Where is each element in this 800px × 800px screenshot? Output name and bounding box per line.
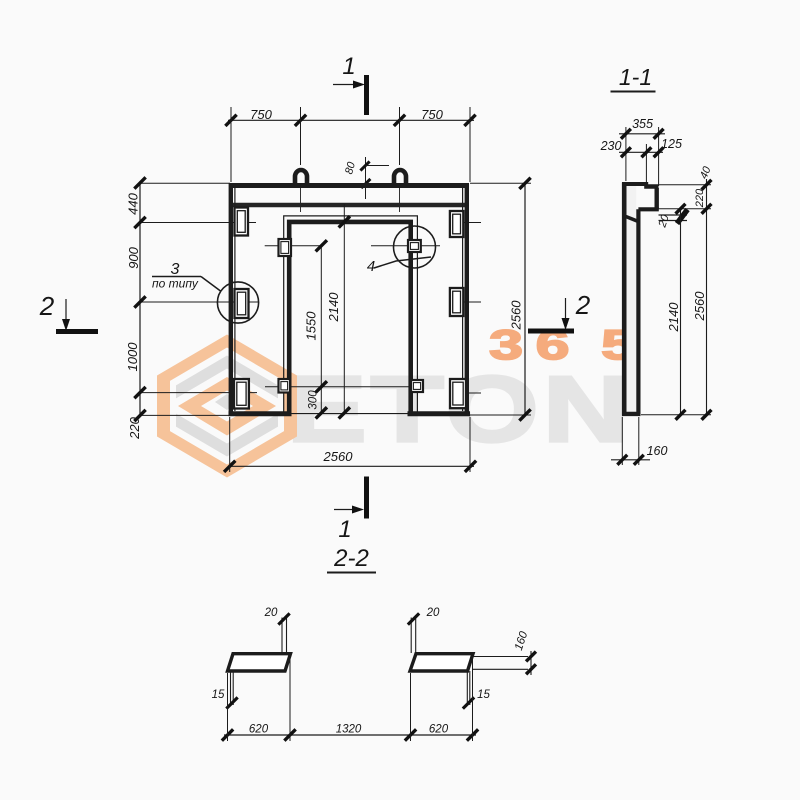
svg-text:125: 125 [661, 137, 682, 151]
svg-text:80: 80 [343, 160, 358, 176]
svg-text:1000: 1000 [125, 342, 140, 372]
svg-text:220: 220 [694, 188, 706, 208]
svg-text:1320: 1320 [336, 724, 362, 736]
svg-text:1: 1 [338, 516, 351, 543]
svg-text:355: 355 [632, 117, 653, 131]
svg-text:3: 3 [171, 261, 180, 278]
svg-text:2: 2 [39, 291, 55, 321]
svg-text:2560: 2560 [509, 300, 524, 331]
svg-text:160: 160 [647, 444, 668, 458]
svg-text:2-2: 2-2 [333, 545, 369, 572]
svg-text:2: 2 [575, 290, 591, 320]
svg-text:20: 20 [264, 607, 278, 619]
svg-text:900: 900 [126, 246, 141, 268]
svg-text:2140: 2140 [326, 292, 341, 323]
svg-text:160: 160 [513, 630, 531, 653]
svg-text:440: 440 [126, 192, 141, 214]
svg-text:750: 750 [421, 107, 443, 122]
svg-text:1-1: 1-1 [619, 64, 652, 90]
svg-text:1550: 1550 [304, 311, 319, 341]
svg-text:2560: 2560 [323, 449, 354, 464]
svg-text:1: 1 [342, 53, 355, 80]
svg-text:620: 620 [429, 724, 449, 736]
svg-text:20: 20 [426, 607, 440, 619]
svg-text:230: 230 [600, 139, 622, 153]
svg-text:15: 15 [477, 689, 490, 701]
svg-text:15: 15 [212, 689, 225, 701]
svg-text:300: 300 [308, 390, 320, 410]
svg-text:4: 4 [367, 258, 375, 275]
svg-text:750: 750 [250, 107, 272, 122]
svg-text:40: 40 [698, 164, 714, 181]
svg-text:220: 220 [127, 416, 142, 439]
svg-text:2140: 2140 [666, 302, 681, 333]
svg-text:620: 620 [249, 724, 269, 736]
svg-text:по типу: по типу [152, 277, 199, 291]
svg-text:2560: 2560 [692, 291, 707, 322]
